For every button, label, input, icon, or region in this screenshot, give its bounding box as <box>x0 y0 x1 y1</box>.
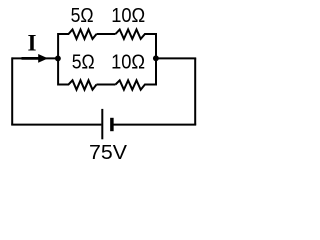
wire bottom left segment to battery <box>11 124 101 126</box>
svg-text:75V: 75V <box>89 141 127 164</box>
resistor R2 10 ohm top branch with leads <box>116 30 157 39</box>
wire right side of parallel section <box>155 33 157 86</box>
wire between R3 and R4 <box>97 84 116 86</box>
node junction dot left <box>55 55 61 61</box>
svg-text:5Ω: 5Ω <box>72 51 95 74</box>
wire left outer vertical <box>11 57 13 124</box>
svg-text:I: I <box>28 31 37 56</box>
wire bottom right segment from battery <box>112 124 196 126</box>
resistor R3 5 ohm bottom branch with leads <box>58 80 96 89</box>
current arrow shaft <box>22 57 40 60</box>
resistor R1 5 ohm top branch with leads <box>58 30 96 39</box>
wire input from left corner to left junction <box>12 57 58 59</box>
resistor R4 10 ohm bottom branch with leads <box>116 80 157 89</box>
wire left side of parallel section <box>57 33 59 86</box>
wire output from right junction to right corner <box>156 57 196 59</box>
svg-text:5Ω: 5Ω <box>71 4 94 27</box>
current arrow head <box>38 54 48 63</box>
battery V1 short plate (negative terminal) <box>110 118 114 131</box>
wire right outer vertical <box>194 58 196 124</box>
svg-text:10Ω: 10Ω <box>111 51 145 74</box>
wire between R1 and R2 <box>97 33 116 35</box>
svg-text:10Ω: 10Ω <box>111 4 145 27</box>
battery V1 long plate (positive terminal) <box>101 109 103 139</box>
node junction dot right <box>153 55 159 61</box>
